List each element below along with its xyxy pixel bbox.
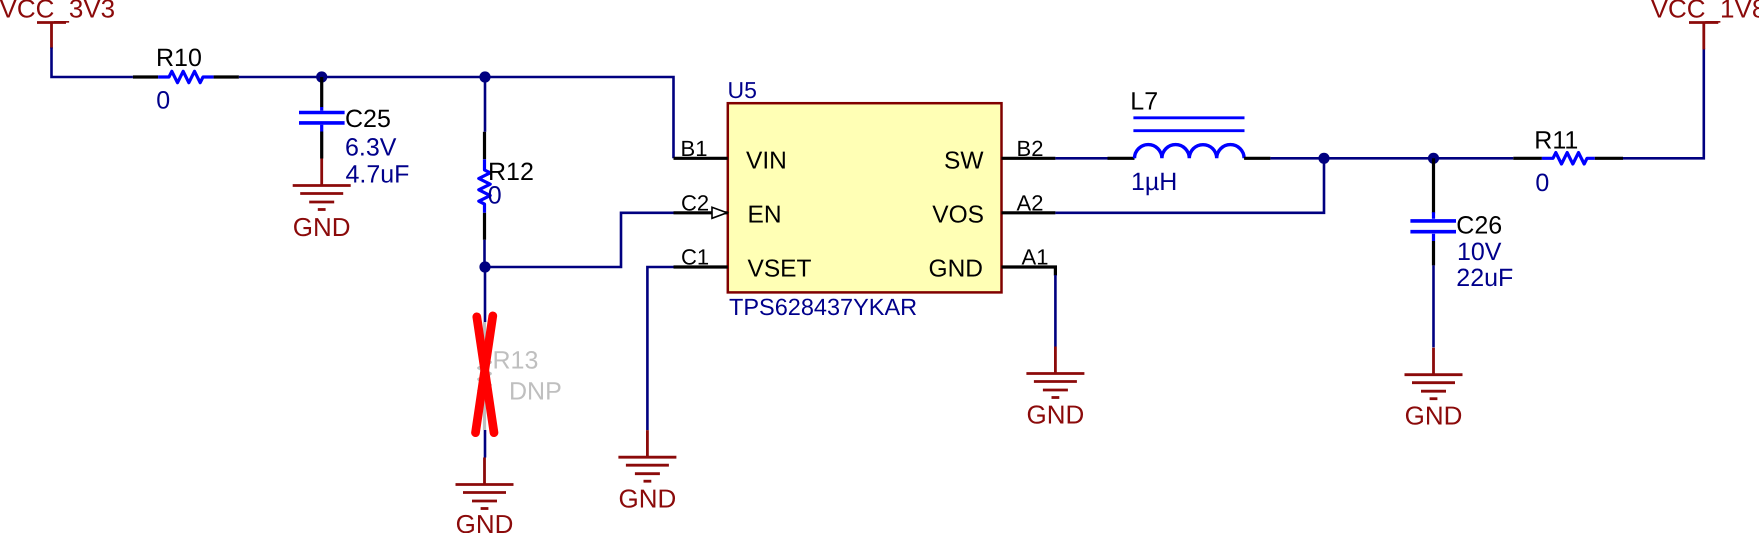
op-amp U5 body (TPS628437YKAR) [728, 77, 1002, 320]
power symbol VCC_1V8 [1651, 0, 1759, 49]
svg-text:GND: GND [1405, 401, 1463, 431]
node junction VOS/SW [1318, 153, 1329, 164]
capacitor C25 [299, 77, 409, 189]
svg-text:GND: GND [293, 212, 351, 242]
svg-text:DNP: DNP [509, 377, 562, 405]
svg-text:L7: L7 [1130, 88, 1158, 116]
wire junction to R12 [484, 77, 487, 132]
svg-text:R10: R10 [156, 44, 202, 72]
wire EN net: junction to EN pin [485, 213, 674, 267]
wire VSET pin to ground [647, 267, 673, 430]
svg-text:GND: GND [1027, 400, 1085, 430]
resistor R11 [1513, 126, 1623, 197]
wire R13 to ground [484, 430, 487, 458]
resistor R12 [479, 132, 534, 240]
svg-text:R11: R11 [1534, 126, 1578, 154]
pin SW (B2) [944, 136, 1055, 174]
svg-text:6.3V: 6.3V [345, 134, 397, 162]
inductor L7 [1108, 88, 1271, 196]
svg-text:C2: C2 [681, 190, 709, 215]
svg-text:U5: U5 [728, 77, 757, 103]
svg-text:VCC_1V8: VCC_1V8 [1651, 0, 1759, 24]
svg-text:C25: C25 [345, 105, 391, 133]
svg-text:GND: GND [929, 256, 983, 283]
svg-text:10V: 10V [1457, 238, 1502, 266]
wire R11 to VCC_1V8 [1623, 48, 1704, 158]
svg-text:B2: B2 [1017, 136, 1044, 161]
svg-text:4.7uF: 4.7uF [346, 161, 410, 189]
wire R10 to U5 corner [239, 77, 674, 158]
svg-text:0: 0 [156, 87, 170, 115]
wire A1 pin to ground [1054, 275, 1057, 347]
svg-text:R13: R13 [493, 347, 539, 375]
wire SW pin to L7 [1055, 157, 1107, 160]
svg-text:22uF: 22uF [1456, 264, 1513, 292]
svg-text:TPS628437YKAR: TPS628437YKAR [729, 294, 917, 320]
DNP cross mark (red X) [476, 316, 495, 433]
svg-text:C26: C26 [1456, 212, 1502, 240]
node junction R12 tap [479, 71, 490, 82]
node junction C25 tap [316, 71, 327, 82]
svg-text:VOS: VOS [932, 202, 984, 229]
pin VOS (A2) [932, 190, 1055, 228]
svg-text:GND: GND [456, 509, 514, 533]
svg-text:1µH: 1µH [1131, 168, 1177, 196]
wire VCC_3V3 to R10 [52, 48, 133, 78]
ground GND under C26 [1405, 348, 1463, 431]
wire L7 to R11 [1270, 157, 1513, 160]
pin GND (A1) [929, 244, 1056, 282]
svg-text:0: 0 [488, 182, 502, 210]
ground GND under C25 [293, 159, 351, 243]
wire C26 to ground [1432, 265, 1435, 347]
ground GND under VSET [618, 430, 676, 513]
svg-text:0: 0 [1535, 169, 1549, 197]
resistor R10 [133, 44, 239, 115]
pin VIN (B1) [674, 136, 787, 174]
wire junction down to R13 [484, 267, 487, 322]
pin EN (C2) [674, 190, 782, 228]
svg-text:VIN: VIN [746, 147, 787, 174]
node junction below R12 [479, 261, 490, 272]
wire R12 to junction [483, 240, 486, 267]
svg-text:C1: C1 [681, 244, 709, 269]
svg-text:SW: SW [944, 147, 984, 174]
wire VOS feedback [1055, 158, 1324, 213]
power symbol VCC_3V3 [0, 0, 115, 49]
capacitor C26 [1410, 158, 1513, 292]
svg-text:GND: GND [619, 483, 677, 513]
svg-text:A1: A1 [1022, 244, 1049, 269]
ground GND under R13 [456, 458, 514, 533]
svg-text:EN: EN [748, 202, 782, 229]
pin VSET (C1) [674, 244, 812, 282]
node junction C26 tap [1428, 153, 1439, 164]
ground GND under A1 [1026, 347, 1084, 430]
svg-text:A2: A2 [1017, 190, 1044, 215]
resistor R13 (DNP, grey) [479, 322, 562, 430]
svg-text:VCC_3V3: VCC_3V3 [0, 0, 115, 24]
svg-text:B1: B1 [681, 136, 708, 161]
svg-text:VSET: VSET [748, 256, 812, 283]
